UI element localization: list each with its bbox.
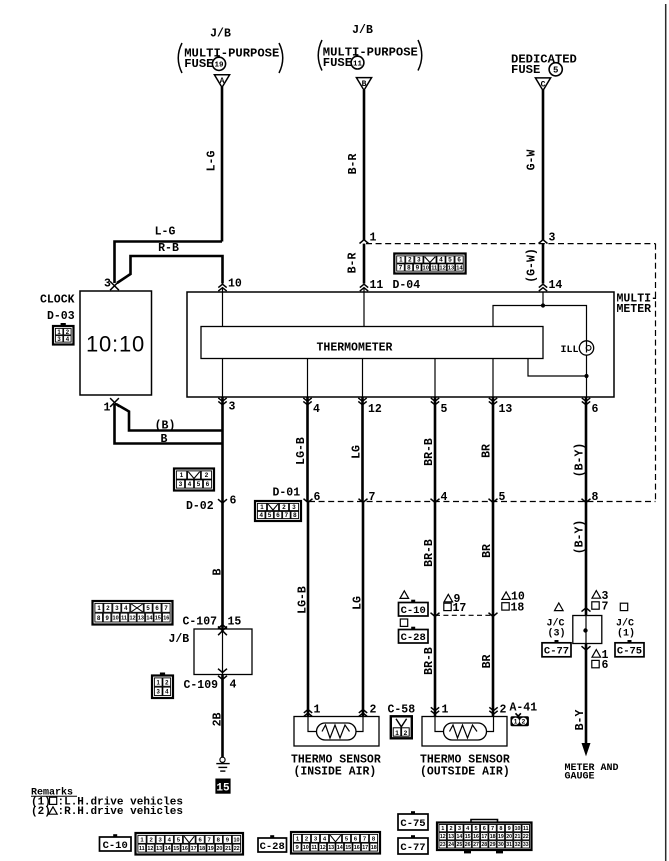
svg-text:4: 4 bbox=[188, 481, 192, 488]
connector icon C-75/C-77 tab bbox=[471, 820, 498, 824]
svg-text:21: 21 bbox=[225, 846, 231, 852]
connector icon D-04 bbox=[394, 254, 465, 274]
connector label box C-77 (J/C) bbox=[542, 640, 571, 658]
multi-meter box outline bbox=[187, 292, 614, 397]
pin chevron 6 (multimeter bottom) bbox=[582, 398, 590, 405]
pin chevron 2 outside air sensor bbox=[489, 707, 497, 714]
svg-text:5: 5 bbox=[474, 826, 477, 832]
connector icon C-107 bbox=[93, 601, 173, 625]
svg-text:30: 30 bbox=[498, 842, 504, 848]
svg-text:14: 14 bbox=[456, 266, 463, 272]
connector icon D-01 bbox=[255, 501, 301, 521]
svg-text:6: 6 bbox=[314, 491, 321, 504]
svg-text:14: 14 bbox=[457, 834, 463, 840]
svg-text:(3): (3) bbox=[548, 628, 566, 640]
wire BR to outside air sensor bbox=[492, 615, 495, 716]
triangle pin mark 9 bbox=[444, 594, 453, 602]
wire L-G from fuse A bbox=[221, 87, 224, 242]
outside sensor right lead bbox=[486, 717, 494, 732]
svg-text:16: 16 bbox=[473, 834, 479, 840]
svg-text:13: 13 bbox=[499, 403, 513, 416]
svg-text:L-G: L-G bbox=[206, 151, 219, 172]
svg-text:BR: BR bbox=[481, 444, 494, 458]
wire (B) clock pin1 to multimeter pin3 bbox=[116, 404, 223, 431]
dashed joint line C-10/C-28 bbox=[435, 614, 493, 616]
svg-text:C-77: C-77 bbox=[400, 842, 425, 854]
svg-text:D-04: D-04 bbox=[393, 279, 421, 292]
svg-text:2: 2 bbox=[205, 472, 209, 479]
pin chevron 6 at D-01 bbox=[304, 499, 313, 503]
svg-text:11: 11 bbox=[353, 60, 363, 68]
svg-text:7: 7 bbox=[369, 491, 376, 504]
svg-text:5: 5 bbox=[268, 512, 272, 519]
svg-text:4: 4 bbox=[230, 679, 237, 692]
svg-text:(B-Y): (B-Y) bbox=[574, 443, 587, 478]
svg-text:GAUGE: GAUGE bbox=[565, 772, 595, 783]
svg-text:2: 2 bbox=[408, 257, 412, 264]
svg-text:6: 6 bbox=[457, 257, 461, 264]
svg-text:18: 18 bbox=[371, 845, 377, 851]
wire pin13 inside multimeter bbox=[492, 359, 494, 398]
svg-text:C-28: C-28 bbox=[260, 841, 285, 853]
connector icon C-10 bbox=[136, 833, 244, 855]
svg-text:11: 11 bbox=[523, 826, 529, 832]
svg-text:LG-B: LG-B bbox=[295, 437, 308, 465]
circled fuse number 5 bbox=[549, 63, 562, 76]
connector triangle A bbox=[214, 75, 229, 88]
svg-text:16: 16 bbox=[163, 616, 169, 622]
svg-text:2: 2 bbox=[370, 704, 377, 717]
pin chevron G-W at D-04 bbox=[539, 240, 548, 244]
connector icon C-75/C-77 (33 pin) bbox=[437, 823, 532, 851]
svg-text:ILL: ILL bbox=[561, 345, 579, 356]
pin chevron 1 outside air sensor bbox=[431, 707, 439, 714]
svg-text:12: 12 bbox=[129, 616, 135, 622]
thermometer box bbox=[201, 327, 543, 359]
svg-text:3: 3 bbox=[458, 826, 461, 832]
svg-text:18: 18 bbox=[199, 846, 205, 852]
svg-text:20: 20 bbox=[506, 834, 512, 840]
svg-text:L-G: L-G bbox=[155, 226, 176, 239]
svg-text:C-75: C-75 bbox=[400, 818, 425, 830]
triangle pin mark 3 (J/C) bbox=[592, 591, 601, 599]
square pin mark 18 bbox=[502, 603, 509, 610]
svg-text:6: 6 bbox=[276, 512, 280, 519]
wire B-R from fuse B bbox=[363, 90, 366, 241]
remarks underline bbox=[31, 795, 77, 797]
svg-text:3: 3 bbox=[417, 257, 421, 264]
svg-text:13: 13 bbox=[156, 846, 162, 852]
svg-text:24: 24 bbox=[448, 842, 454, 848]
connector icon C-75/C-77 feet bbox=[464, 850, 471, 853]
svg-text:25: 25 bbox=[457, 842, 463, 848]
svg-text:19: 19 bbox=[214, 62, 224, 70]
svg-text:9: 9 bbox=[508, 826, 511, 832]
svg-text:(OUTSIDE AIR): (OUTSIDE AIR) bbox=[420, 766, 510, 779]
connector label box C-75 (J/C) bbox=[615, 640, 644, 658]
svg-text:C-58: C-58 bbox=[388, 704, 416, 717]
svg-text:19: 19 bbox=[498, 834, 504, 840]
remark triangle symbol bbox=[49, 807, 57, 814]
pin chevron 8 at D-01 bbox=[582, 499, 591, 503]
svg-text:4: 4 bbox=[441, 491, 448, 504]
pin chevron 12 (multimeter bottom) bbox=[358, 398, 366, 405]
svg-text:15: 15 bbox=[228, 616, 242, 629]
svg-text:33: 33 bbox=[523, 842, 529, 848]
joint X at J/B box top bbox=[218, 626, 227, 635]
svg-text:BR: BR bbox=[481, 544, 494, 558]
pin chevron 5 at D-01 bbox=[489, 499, 498, 503]
svg-text:4: 4 bbox=[439, 257, 443, 264]
svg-text:C-77: C-77 bbox=[544, 646, 569, 658]
connector triangle B bbox=[356, 78, 371, 91]
connector triangle C bbox=[535, 78, 550, 91]
svg-text:5: 5 bbox=[197, 481, 201, 488]
svg-text:(B-Y): (B-Y) bbox=[574, 520, 587, 555]
svg-text:(G-W): (G-W) bbox=[526, 248, 539, 283]
svg-text:CLOCK: CLOCK bbox=[40, 294, 75, 307]
pin chevron 13 (multimeter bottom) bbox=[489, 398, 497, 405]
svg-text:1: 1 bbox=[104, 402, 111, 415]
svg-text:4: 4 bbox=[313, 403, 320, 416]
square pin mark 6 (below J/C) bbox=[592, 660, 599, 667]
svg-text:3: 3 bbox=[292, 504, 296, 511]
svg-text:27: 27 bbox=[473, 842, 479, 848]
joint chevron BR at C-10/C-28 bbox=[489, 613, 498, 617]
ground symbol bbox=[216, 757, 229, 771]
junction dot ILL lower bbox=[584, 374, 588, 378]
outside sensor left lead bbox=[435, 717, 444, 732]
svg-text:2B: 2B bbox=[212, 713, 225, 727]
paren left (fuse A) bbox=[178, 43, 182, 73]
svg-text:18: 18 bbox=[490, 834, 496, 840]
svg-text:12: 12 bbox=[147, 846, 153, 852]
ground number 15 (reversed) bbox=[215, 779, 230, 794]
triangle pin mark 1 (below J/C) bbox=[592, 650, 601, 658]
svg-text:29: 29 bbox=[490, 842, 496, 848]
svg-text:(1): (1) bbox=[617, 628, 635, 640]
svg-text:13: 13 bbox=[448, 266, 454, 272]
wire pin12 inside multimeter bbox=[362, 359, 364, 398]
wire (B-Y) multimeter pin6 to D-01 bbox=[585, 397, 588, 502]
thermistor (inside air) bbox=[317, 723, 357, 740]
svg-text:14: 14 bbox=[146, 616, 153, 622]
svg-text:7: 7 bbox=[285, 512, 289, 519]
svg-text:3: 3 bbox=[229, 401, 236, 414]
svg-text:16: 16 bbox=[182, 846, 188, 852]
joint chevron C-107 top bbox=[218, 625, 227, 629]
pin chevron 6 at D-02 bbox=[218, 499, 227, 503]
wire ILL lower horizontal bbox=[528, 359, 587, 377]
circled fuse number 19 bbox=[212, 57, 225, 70]
svg-text:1: 1 bbox=[260, 504, 264, 511]
wire BR to C-10/C-28 joint bbox=[492, 502, 495, 617]
svg-text:2: 2 bbox=[522, 719, 526, 726]
svg-text:1: 1 bbox=[441, 826, 444, 832]
wire BR-B to outside air sensor bbox=[434, 615, 437, 716]
svg-text:15: 15 bbox=[465, 834, 471, 840]
svg-text:8: 8 bbox=[499, 826, 502, 832]
wire inside J/B box bbox=[222, 629, 224, 675]
svg-text:7: 7 bbox=[491, 826, 494, 832]
pin chevron 4 (multimeter bottom) bbox=[303, 398, 311, 405]
wire ILL branch horizontal top bbox=[493, 306, 587, 341]
svg-text:10: 10 bbox=[423, 266, 429, 272]
svg-text:3: 3 bbox=[549, 232, 556, 245]
svg-text:C-75: C-75 bbox=[617, 646, 642, 658]
svg-text:22: 22 bbox=[234, 846, 240, 852]
svg-text:2: 2 bbox=[282, 504, 286, 511]
svg-text:FUSE: FUSE bbox=[184, 57, 213, 71]
svg-text:B-R: B-R bbox=[347, 253, 360, 274]
svg-text:15: 15 bbox=[173, 846, 179, 852]
svg-text:1: 1 bbox=[399, 257, 403, 264]
svg-text:1: 1 bbox=[180, 472, 184, 479]
svg-text:C-28: C-28 bbox=[401, 632, 426, 644]
triangle mark (C-10 alt) bbox=[400, 591, 409, 599]
wire L-G horizontal to clock bbox=[115, 242, 223, 284]
wire pin5 inside multimeter bbox=[434, 359, 436, 398]
svg-text:1: 1 bbox=[442, 704, 449, 717]
square mark (J/C 1) bbox=[620, 603, 627, 610]
wire pin14 inside multimeter bbox=[542, 292, 544, 306]
joint chevron above J/C box bbox=[582, 608, 591, 612]
svg-text:14: 14 bbox=[549, 279, 563, 292]
svg-text:FUSE: FUSE bbox=[323, 56, 352, 70]
svg-text:10: 10 bbox=[515, 826, 521, 832]
dashed boundary right edge bbox=[655, 244, 657, 502]
wire (G-W) below D-04 bbox=[542, 244, 545, 284]
thermo sensor (inside air) box bbox=[294, 717, 379, 747]
square mark (C-28 alt) bbox=[400, 619, 407, 626]
connector label box C-28 (bottom) bbox=[258, 835, 287, 853]
thermo sensor (outside air) box bbox=[422, 717, 507, 747]
svg-text:18: 18 bbox=[511, 601, 525, 614]
wire LG multimeter pin12 to D-01 bbox=[361, 397, 364, 502]
wire LG to inside air sensor bbox=[362, 502, 365, 717]
svg-text:16: 16 bbox=[354, 845, 360, 851]
wire G-W from fuse C bbox=[542, 90, 545, 241]
junction connector J/C box bbox=[573, 616, 602, 644]
pin chevron 1 inside air sensor bbox=[304, 710, 312, 717]
svg-text:5: 5 bbox=[448, 257, 452, 264]
wire B from D-02 to J/B bbox=[221, 502, 224, 629]
svg-text:23: 23 bbox=[440, 842, 446, 848]
wire through J/C box bbox=[585, 616, 587, 644]
connector label box C-77 (bottom) bbox=[398, 835, 428, 854]
pin chevron 14 multimeter bbox=[539, 284, 547, 291]
connector label box C-75 (bottom) bbox=[398, 811, 428, 830]
svg-text:BR-B: BR-B bbox=[423, 438, 436, 466]
svg-text:32: 32 bbox=[515, 842, 521, 848]
svg-text:7: 7 bbox=[602, 601, 609, 614]
pin chevron B-R at D-04 bbox=[360, 240, 369, 244]
svg-text:C-107: C-107 bbox=[183, 616, 218, 629]
wire LG-B multimeter pin4 to D-01 bbox=[306, 397, 309, 502]
pin chevron 10 multimeter bbox=[218, 284, 226, 291]
svg-text:5: 5 bbox=[553, 66, 558, 76]
svg-text:B-R: B-R bbox=[347, 154, 360, 175]
svg-text:1: 1 bbox=[370, 232, 377, 245]
svg-text:8: 8 bbox=[407, 265, 411, 272]
connector icon C-109 bbox=[152, 673, 173, 699]
triangle mark (J/C 3) bbox=[555, 603, 564, 611]
svg-text:D-02: D-02 bbox=[186, 500, 214, 513]
wire LG-B to inside air sensor bbox=[307, 502, 310, 717]
wire pin4 inside multimeter bbox=[307, 359, 309, 398]
svg-text:6: 6 bbox=[483, 826, 486, 832]
svg-text:1: 1 bbox=[314, 704, 321, 717]
svg-text:11: 11 bbox=[121, 616, 127, 622]
svg-text:11: 11 bbox=[139, 846, 145, 852]
wire 2B to ground bbox=[221, 675, 224, 758]
svg-text:8: 8 bbox=[592, 491, 599, 504]
wire ILL to lower junction bbox=[586, 355, 588, 376]
square pin mark 17 bbox=[444, 603, 451, 610]
svg-text:12: 12 bbox=[320, 845, 326, 851]
svg-text:12: 12 bbox=[440, 834, 446, 840]
wire B-R below D-04 bbox=[363, 244, 366, 284]
arrowhead to meter and gauge bbox=[582, 744, 590, 755]
clock box D-03 bbox=[80, 291, 152, 395]
clock pin 1 junction X bbox=[110, 398, 119, 407]
paren left (fuse B) bbox=[318, 40, 322, 71]
svg-text:2: 2 bbox=[500, 704, 507, 717]
remark square symbol bbox=[50, 797, 57, 804]
wire B multimeter pin3 to D-02 bbox=[221, 397, 224, 502]
junction dot in J/C box bbox=[583, 628, 587, 632]
svg-text:C-109: C-109 bbox=[184, 679, 219, 692]
svg-text:10: 10 bbox=[303, 845, 309, 851]
svg-text:8: 8 bbox=[293, 512, 297, 519]
svg-text:(B): (B) bbox=[155, 420, 176, 433]
wire (B-Y) to J/C bbox=[585, 502, 588, 616]
paren right (fuse B) bbox=[418, 40, 422, 71]
svg-text:15: 15 bbox=[155, 616, 161, 622]
dashed connector line D-01 (bottom) bbox=[309, 501, 656, 503]
svg-text:METER: METER bbox=[617, 303, 652, 316]
pin chevron 11 multimeter bbox=[360, 284, 368, 291]
svg-text:3: 3 bbox=[104, 278, 111, 291]
svg-text:THERMOMETER: THERMOMETER bbox=[317, 342, 393, 355]
ILL lamp circle bbox=[579, 341, 593, 355]
svg-text:10:10: 10:10 bbox=[86, 332, 145, 357]
svg-text:3: 3 bbox=[179, 481, 183, 488]
triangle pin mark 10 bbox=[502, 592, 511, 600]
svg-text:13: 13 bbox=[448, 834, 454, 840]
connector label box C-28 (mid) bbox=[399, 627, 429, 644]
svg-text:B: B bbox=[212, 568, 225, 575]
pin chevron 7 at D-01 bbox=[359, 499, 368, 503]
svg-text:10: 10 bbox=[228, 278, 242, 291]
svg-text:26: 26 bbox=[465, 842, 471, 848]
svg-text:LG: LG bbox=[351, 445, 364, 459]
circled fuse number 11 bbox=[351, 56, 364, 69]
svg-text:C: C bbox=[541, 80, 546, 89]
svg-text:BR-B: BR-B bbox=[423, 647, 436, 675]
svg-text:LG-B: LG-B bbox=[297, 586, 310, 614]
J/B box (C-107/C-109) bbox=[194, 629, 252, 675]
svg-text:6: 6 bbox=[592, 403, 599, 416]
wire BR-B to C-10/C-28 joint bbox=[434, 502, 437, 617]
svg-text:6: 6 bbox=[206, 481, 210, 488]
svg-text:6: 6 bbox=[602, 659, 609, 672]
inside sensor right lead bbox=[356, 717, 364, 732]
wire pin6 inside multimeter bbox=[586, 376, 588, 397]
svg-text:1: 1 bbox=[514, 719, 518, 726]
svg-text:R-B: R-B bbox=[158, 242, 179, 255]
svg-text:D-01: D-01 bbox=[273, 487, 301, 500]
svg-text:10: 10 bbox=[234, 837, 240, 843]
svg-text:31: 31 bbox=[506, 842, 512, 848]
svg-text:LG: LG bbox=[352, 596, 365, 610]
connector icon D-03 bbox=[53, 323, 74, 345]
pin chevron 5 (multimeter bottom) bbox=[431, 398, 439, 405]
svg-text:19: 19 bbox=[208, 846, 214, 852]
svg-text:D-03: D-03 bbox=[47, 310, 75, 323]
junction dot pin14 branch bbox=[541, 303, 545, 307]
thermistor (outside air) bbox=[444, 723, 487, 740]
svg-text:11: 11 bbox=[311, 845, 317, 851]
svg-text:7: 7 bbox=[399, 265, 403, 272]
svg-text:9: 9 bbox=[416, 265, 420, 272]
svg-text:17: 17 bbox=[453, 602, 467, 615]
page edge scan line (right) bbox=[665, 4, 667, 861]
svg-text:10: 10 bbox=[113, 616, 119, 622]
svg-text:21: 21 bbox=[515, 834, 521, 840]
svg-text:A-41: A-41 bbox=[510, 702, 538, 715]
svg-text:28: 28 bbox=[481, 842, 487, 848]
svg-text:13: 13 bbox=[328, 845, 334, 851]
svg-text:5: 5 bbox=[441, 403, 448, 416]
connector label box C-10 (mid) bbox=[399, 600, 429, 617]
svg-text:12: 12 bbox=[368, 403, 382, 416]
paren right (fuse A) bbox=[279, 43, 283, 73]
clock pin 3 junction X bbox=[110, 281, 119, 290]
connector label box C-10 (bottom) bbox=[100, 834, 132, 852]
joint chevron BR-B at C-10/C-28 bbox=[431, 613, 440, 617]
wire BR multimeter pin13 to D-01 bbox=[492, 397, 495, 502]
svg-text:C-10: C-10 bbox=[401, 605, 426, 617]
svg-text:(INSIDE AIR): (INSIDE AIR) bbox=[294, 766, 377, 779]
svg-text:12: 12 bbox=[439, 266, 445, 272]
svg-text:BR: BR bbox=[481, 655, 494, 669]
svg-text:11: 11 bbox=[431, 266, 437, 272]
svg-text:A: A bbox=[220, 77, 225, 86]
svg-text:14: 14 bbox=[337, 845, 343, 851]
svg-text:FUSE: FUSE bbox=[511, 63, 540, 77]
svg-text::R.H.drive vehicles: :R.H.drive vehicles bbox=[58, 806, 183, 818]
svg-text:2: 2 bbox=[450, 826, 453, 832]
svg-text:1: 1 bbox=[395, 730, 399, 737]
joint chevron J/B box bottom outer bbox=[218, 676, 227, 680]
connector icon D-02 bbox=[174, 469, 214, 491]
wire R-B from clock pin 3 bbox=[117, 256, 223, 284]
svg-text:J/B: J/B bbox=[352, 24, 373, 37]
svg-text:B: B bbox=[161, 433, 168, 446]
connector icon C-58 bbox=[391, 716, 412, 738]
svg-text:14: 14 bbox=[165, 846, 171, 852]
svg-text:17: 17 bbox=[481, 834, 487, 840]
svg-text:15: 15 bbox=[216, 783, 230, 795]
svg-text:20: 20 bbox=[216, 846, 222, 852]
svg-text:B: B bbox=[362, 80, 367, 89]
svg-text:13: 13 bbox=[138, 616, 144, 622]
connector icon A-41 bbox=[511, 713, 529, 726]
square pin mark 7 (J/C) bbox=[592, 602, 599, 609]
wire pin3 inside multimeter bbox=[222, 359, 224, 398]
svg-text:(2): (2) bbox=[31, 806, 51, 818]
